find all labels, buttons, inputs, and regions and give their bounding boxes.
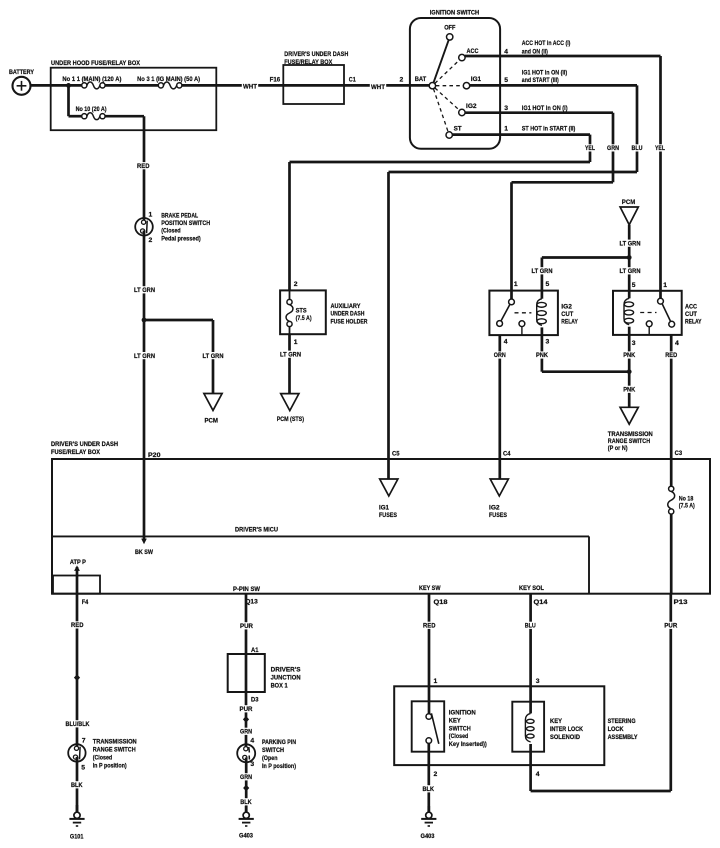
svg-text:PNK: PNK bbox=[536, 352, 548, 359]
svg-text:G403: G403 bbox=[421, 833, 435, 840]
fuse No 18 (7.5 A) bbox=[668, 459, 695, 594]
arrow to PCM (STS) bbox=[277, 394, 304, 424]
pin P20 bbox=[148, 452, 161, 459]
pin 3 bbox=[504, 105, 508, 112]
steering lock assembly box bbox=[394, 686, 638, 765]
svg-text:RED: RED bbox=[137, 163, 150, 170]
svg-text:RANGE SWITCH: RANGE SWITCH bbox=[608, 438, 650, 445]
note ST HOT bbox=[522, 125, 576, 132]
svg-text:5: 5 bbox=[546, 281, 550, 288]
svg-text:STEERING: STEERING bbox=[608, 718, 636, 725]
wire transmission range switch to ground (BLK) bbox=[70, 757, 84, 812]
svg-text:RED: RED bbox=[71, 622, 84, 629]
svg-text:LT GRN: LT GRN bbox=[620, 268, 641, 275]
driver's MICU box bbox=[52, 527, 589, 594]
pin 2 STS fuse bbox=[294, 281, 298, 288]
IG1 contact bbox=[463, 76, 481, 89]
pin 3 ACC relay bbox=[632, 340, 636, 347]
wire ACC pin4 to ACC cut relay pin1 (YEL) bbox=[465, 56, 666, 291]
battery positive terminal bbox=[9, 69, 34, 95]
svg-text:1: 1 bbox=[294, 339, 298, 346]
arrow to transmission range switch bbox=[608, 407, 653, 452]
svg-text:4: 4 bbox=[504, 339, 508, 346]
svg-text:F4: F4 bbox=[82, 599, 89, 606]
svg-text:Pedal pressed): Pedal pressed) bbox=[161, 236, 201, 243]
driver's junction box 1 bbox=[228, 654, 301, 692]
pin C4 bbox=[503, 451, 511, 458]
svg-text:IGNITION SWITCH: IGNITION SWITCH bbox=[430, 10, 480, 17]
svg-text:WHT: WHT bbox=[243, 83, 258, 90]
pin 5 IG2 relay bbox=[546, 281, 550, 288]
svg-text:FUSE HOLDER: FUSE HOLDER bbox=[331, 318, 368, 325]
svg-text:and ON (II): and ON (II) bbox=[522, 48, 548, 55]
wire IG1 pin5 to C5 (BLU) bbox=[389, 85, 644, 479]
svg-text:SWITCH: SWITCH bbox=[262, 747, 284, 754]
wire IG2 relay pin3 (PNK) bbox=[535, 335, 629, 372]
pin P13 bbox=[674, 599, 688, 606]
pin P-PIN SW bbox=[233, 586, 261, 593]
svg-text:C4: C4 bbox=[503, 451, 511, 458]
wire ACC relay pin4 to C3 (RED) bbox=[664, 335, 678, 459]
svg-text:IG1: IG1 bbox=[379, 505, 389, 512]
svg-text:RED: RED bbox=[423, 623, 436, 630]
IG2 contact bbox=[459, 103, 477, 116]
svg-text:3: 3 bbox=[632, 340, 636, 347]
fuse No 31 (IG MAIN) (50 A) bbox=[137, 76, 200, 89]
svg-text:No 18: No 18 bbox=[679, 495, 694, 502]
svg-text:IG2: IG2 bbox=[466, 103, 477, 110]
svg-text:LOCK: LOCK bbox=[608, 726, 624, 733]
svg-text:3: 3 bbox=[250, 761, 254, 768]
switch blade BAT-OFF bbox=[434, 40, 449, 83]
ST contact bbox=[446, 125, 462, 138]
relay ACC CUT RELAY bbox=[613, 291, 702, 335]
svg-text:IG1 HOT in ON (II): IG1 HOT in ON (II) bbox=[522, 69, 567, 76]
svg-text:2: 2 bbox=[434, 771, 438, 778]
svg-text:In P position): In P position) bbox=[93, 763, 127, 770]
parking pin switch S3 bbox=[237, 738, 296, 770]
svg-text:SWITCH: SWITCH bbox=[449, 726, 471, 733]
svg-text:UNDER DASH: UNDER DASH bbox=[331, 311, 365, 318]
svg-text:BK SW: BK SW bbox=[135, 549, 153, 556]
svg-text:A1: A1 bbox=[251, 647, 259, 654]
svg-text:BLK: BLK bbox=[423, 786, 435, 793]
svg-text:DRIVER'S UNDER DASH: DRIVER'S UNDER DASH bbox=[284, 51, 348, 58]
BAT contact bbox=[415, 76, 436, 89]
ground G403 (parking pin switch) bbox=[239, 806, 254, 840]
svg-text:INTER LOCK: INTER LOCK bbox=[550, 726, 583, 733]
ignition switch U1 bbox=[410, 10, 500, 149]
svg-text:No 10 (20 A): No 10 (20 A) bbox=[76, 106, 107, 113]
wire key switch pin2 to ground (BLK) bbox=[421, 752, 437, 813]
pin BK SW bbox=[135, 549, 153, 556]
dashed throw BAT-ST bbox=[433, 89, 448, 132]
inline connector (GRN-BLK) bbox=[243, 785, 249, 792]
svg-text:BAT: BAT bbox=[415, 76, 427, 83]
svg-text:UNDER HOOD FUSE/RELAY BOX: UNDER HOOD FUSE/RELAY BOX bbox=[51, 60, 140, 67]
wire bus to ignition switch bbox=[240, 83, 429, 91]
svg-text:C5: C5 bbox=[392, 451, 400, 458]
svg-text:(Closed: (Closed bbox=[93, 755, 113, 762]
svg-text:(7.5 A): (7.5 A) bbox=[296, 315, 312, 322]
dashed throw BAT-IG1 bbox=[436, 85, 463, 87]
svg-text:D3: D3 bbox=[251, 696, 259, 703]
pin Q18 bbox=[434, 599, 448, 606]
svg-text:PCM (STS): PCM (STS) bbox=[277, 416, 304, 423]
pin 4 IG2 relay bbox=[504, 339, 508, 346]
svg-text:GRN: GRN bbox=[240, 774, 252, 781]
svg-text:STS: STS bbox=[296, 307, 307, 314]
svg-text:7: 7 bbox=[82, 738, 86, 745]
pin 1 bbox=[504, 125, 508, 132]
wire main bus inside box bbox=[51, 84, 240, 87]
driver's under dash fuse/relay box (main) bbox=[51, 441, 710, 594]
pin 2 of ignition switch bbox=[400, 77, 404, 84]
relay IG2 CUT RELAY bbox=[489, 291, 578, 336]
svg-text:PARKING PIN: PARKING PIN bbox=[262, 739, 296, 746]
svg-text:SOLENOID: SOLENOID bbox=[550, 734, 580, 741]
svg-text:RELAY: RELAY bbox=[561, 319, 578, 326]
svg-text:No 3 1 (IG MAIN) (50 A): No 3 1 (IG MAIN) (50 A) bbox=[137, 76, 200, 83]
ACC contact bbox=[459, 48, 479, 61]
svg-text:(Closed: (Closed bbox=[161, 228, 181, 235]
svg-text:2: 2 bbox=[149, 237, 153, 244]
pin Q13 bbox=[245, 598, 258, 605]
svg-text:3: 3 bbox=[546, 339, 550, 346]
svg-text:Q14: Q14 bbox=[534, 599, 548, 606]
svg-text:FUSES: FUSES bbox=[489, 512, 507, 519]
pin 1 ACC relay bbox=[663, 282, 667, 289]
svg-text:RANGE SWITCH: RANGE SWITCH bbox=[93, 747, 136, 754]
svg-text:LT GRN: LT GRN bbox=[134, 287, 155, 294]
svg-text:DRIVER'S MICU: DRIVER'S MICU bbox=[235, 527, 278, 534]
svg-text:5: 5 bbox=[504, 77, 508, 84]
pin C1 bbox=[349, 77, 356, 84]
svg-text:TRANSMISSION: TRANSMISSION bbox=[93, 739, 137, 746]
svg-text:ATP P: ATP P bbox=[70, 559, 86, 566]
svg-text:1: 1 bbox=[434, 678, 438, 685]
wire battery to under-hood fuse box bbox=[31, 84, 52, 87]
svg-text:LT GRN: LT GRN bbox=[620, 240, 641, 247]
under-hood fuse/relay box bbox=[51, 60, 217, 130]
note IG2 HOT bbox=[522, 105, 568, 112]
svg-text:GRN: GRN bbox=[240, 729, 252, 736]
svg-text:P13: P13 bbox=[674, 599, 688, 606]
svg-text:BLU: BLU bbox=[525, 623, 536, 630]
svg-text:OFF: OFF bbox=[444, 25, 455, 32]
svg-text:PCM: PCM bbox=[622, 199, 636, 206]
svg-text:(P or N): (P or N) bbox=[608, 445, 628, 452]
pin Q14 bbox=[534, 599, 548, 606]
svg-text:Q18: Q18 bbox=[434, 599, 448, 606]
pin C3 bbox=[675, 450, 683, 457]
svg-text:Key Inserted)): Key Inserted)) bbox=[449, 741, 487, 748]
pin 5 ACC relay bbox=[632, 282, 636, 289]
wire fuse No 10 to down column bbox=[105, 116, 144, 223]
svg-text:LT GRN: LT GRN bbox=[134, 353, 155, 360]
note ACC HOT bbox=[522, 40, 571, 55]
wire STS fuse to PCM arrow (LT GRN) bbox=[279, 334, 302, 393]
wire junction down to fuse No 10 bbox=[69, 85, 82, 116]
svg-text:4: 4 bbox=[504, 48, 508, 55]
svg-text:1: 1 bbox=[514, 281, 518, 288]
OFF contact bbox=[444, 25, 455, 41]
svg-text:5: 5 bbox=[632, 282, 636, 289]
wire junction box to parking pin switch (PUR/GRN) bbox=[238, 692, 258, 750]
svg-text:(Closed: (Closed bbox=[449, 733, 469, 740]
svg-text:PUR: PUR bbox=[240, 706, 253, 713]
wire Q18 to ignition key switch (RED) bbox=[422, 594, 438, 702]
svg-text:LT GRN: LT GRN bbox=[280, 351, 301, 358]
svg-text:PCM: PCM bbox=[205, 417, 219, 424]
svg-text:ACC: ACC bbox=[685, 304, 697, 311]
arrow to PCM bbox=[204, 394, 222, 425]
svg-text:RELAY: RELAY bbox=[685, 319, 702, 326]
svg-text:ACC HOT in ACC (I): ACC HOT in ACC (I) bbox=[522, 40, 571, 47]
svg-text:FUSE/RELAY BOX: FUSE/RELAY BOX bbox=[51, 449, 100, 456]
wire F4 to transmission range switch (RED / BLU-BLK) bbox=[64, 594, 90, 750]
svg-text:C1: C1 bbox=[349, 77, 356, 84]
svg-text:JUNCTION: JUNCTION bbox=[271, 674, 301, 681]
junction PNK bbox=[627, 369, 632, 374]
svg-text:WHT: WHT bbox=[371, 84, 386, 91]
note IG1 HOT bbox=[522, 69, 567, 84]
pin F16 bbox=[270, 77, 281, 84]
pin KEY SW bbox=[419, 585, 441, 592]
svg-text:G403: G403 bbox=[239, 833, 253, 840]
wire branch to PCM arrow (LT GRN) bbox=[144, 320, 225, 394]
wire brake switch down (LT GRN) bbox=[133, 231, 156, 321]
wire IG2 relay pin4 to C4 (ORN) bbox=[493, 335, 507, 479]
svg-text:1: 1 bbox=[149, 211, 153, 218]
svg-text:ORN: ORN bbox=[494, 352, 506, 359]
pin KEY SOL bbox=[519, 585, 544, 592]
dashed throw BAT-IG2 bbox=[435, 88, 459, 110]
pin 4 ACC relay bbox=[675, 340, 679, 347]
wire solenoid pin4 down bbox=[531, 752, 540, 791]
ground G403 (ignition key switch) bbox=[421, 806, 437, 840]
svg-text:No 1 1 (MAIN) (120 A): No 1 1 (MAIN) (120 A) bbox=[62, 76, 121, 83]
inline connector (left column) bbox=[74, 674, 80, 681]
svg-text:TRANSMISSION: TRANSMISSION bbox=[608, 431, 653, 438]
svg-text:4: 4 bbox=[250, 738, 254, 745]
svg-text:4: 4 bbox=[536, 771, 540, 778]
svg-text:2: 2 bbox=[294, 281, 298, 288]
svg-text:LT GRN: LT GRN bbox=[532, 268, 553, 275]
svg-text:and START (III): and START (III) bbox=[522, 77, 559, 84]
label LT GRN on ACC relay pin5 wire bbox=[618, 267, 641, 275]
svg-text:PNK: PNK bbox=[623, 387, 635, 394]
wire Q14 to key interlock solenoid (BLU) bbox=[524, 594, 540, 702]
svg-text:(Open: (Open bbox=[262, 755, 278, 762]
ignition key switch S4 bbox=[412, 701, 487, 751]
svg-text:POSITION SWITCH: POSITION SWITCH bbox=[161, 220, 210, 227]
svg-text:RED: RED bbox=[665, 352, 677, 359]
wire ACC relay pin3 (PNK) bbox=[622, 335, 636, 407]
svg-text:3: 3 bbox=[504, 105, 508, 112]
wire to pin P20 / BK SW (LT GRN) bbox=[133, 320, 156, 544]
svg-text:PNK: PNK bbox=[623, 352, 635, 359]
driver's under dash fuse/relay box (pass-through) bbox=[283, 51, 348, 104]
svg-text:P-PIN SW: P-PIN SW bbox=[233, 586, 261, 593]
svg-text:BRAKE PEDAL: BRAKE PEDAL bbox=[161, 212, 198, 219]
key interlock solenoid L1 bbox=[512, 702, 583, 752]
svg-text:BLK: BLK bbox=[71, 782, 83, 789]
svg-text:DRIVER'S: DRIVER'S bbox=[271, 666, 301, 673]
pin ATP P with sub-box bbox=[53, 559, 100, 594]
junction LT GRN split bbox=[627, 255, 632, 260]
pin C5 bbox=[392, 451, 400, 458]
wire IG2 pin3 to IG2 cut relay pin1 (GRN) bbox=[465, 113, 620, 291]
inline connector (PUR-GRN) bbox=[243, 716, 249, 723]
wire parking pin switch to ground (GRN/BLK) bbox=[239, 758, 253, 813]
fuse STS (7.5 A) auxiliary under dash fuse holder bbox=[280, 290, 367, 334]
svg-text:DRIVER'S UNDER DASH: DRIVER'S UNDER DASH bbox=[51, 441, 118, 448]
svg-text:IG1 HOT in ON (I): IG1 HOT in ON (I) bbox=[522, 105, 568, 112]
svg-text:BATTERY: BATTERY bbox=[9, 69, 34, 76]
ground G101 bbox=[69, 805, 84, 840]
svg-text:FUSES: FUSES bbox=[379, 512, 397, 519]
svg-text:ST: ST bbox=[454, 125, 463, 132]
svg-text:IGNITION: IGNITION bbox=[449, 710, 476, 717]
svg-text:C3: C3 bbox=[675, 450, 683, 457]
arrow to IG2 fuses bbox=[489, 479, 508, 519]
svg-text:BLK: BLK bbox=[240, 799, 252, 806]
arrow from PCM (top right) bbox=[618, 199, 641, 290]
transmission range switch S2 bbox=[68, 738, 137, 772]
svg-text:In P position): In P position) bbox=[262, 763, 296, 770]
svg-text:FUSE/RELAY BOX: FUSE/RELAY BOX bbox=[284, 59, 332, 66]
svg-text:CUT: CUT bbox=[685, 311, 698, 318]
wire Q13 to driver's junction box (PUR) bbox=[239, 594, 259, 654]
svg-text:KEY: KEY bbox=[550, 718, 562, 725]
arrow to IG1 fuses bbox=[379, 479, 398, 519]
wire to IG2 relay pin5 (LT GRN) bbox=[530, 258, 629, 291]
fuse No 11 (MAIN) (120 A) bbox=[62, 76, 121, 89]
junction LT GRN (left column) bbox=[142, 318, 147, 323]
svg-text:P20: P20 bbox=[148, 452, 161, 459]
svg-text:1: 1 bbox=[504, 125, 508, 132]
svg-text:YEL: YEL bbox=[585, 145, 595, 152]
svg-text:BLU: BLU bbox=[632, 145, 643, 152]
svg-text:(7.5 A): (7.5 A) bbox=[679, 502, 695, 509]
svg-text:4: 4 bbox=[675, 340, 679, 347]
svg-text:3: 3 bbox=[536, 678, 540, 685]
dashed throw BAT-ACC bbox=[435, 60, 460, 83]
svg-text:LT GRN: LT GRN bbox=[203, 353, 224, 360]
svg-text:KEY SOL: KEY SOL bbox=[519, 585, 544, 592]
brake pedal position switch S1 bbox=[135, 211, 210, 244]
svg-text:IG2: IG2 bbox=[561, 304, 572, 311]
svg-text:F16: F16 bbox=[270, 77, 281, 84]
svg-text:ST HOT in START (II): ST HOT in START (II) bbox=[522, 125, 576, 132]
svg-text:ASSEMBLY: ASSEMBLY bbox=[608, 734, 638, 741]
svg-text:PUR: PUR bbox=[664, 623, 677, 630]
svg-text:IG2: IG2 bbox=[489, 505, 500, 512]
svg-text:PUR: PUR bbox=[240, 623, 253, 630]
svg-text:YEL: YEL bbox=[655, 145, 665, 152]
wire label RED (left column) bbox=[136, 162, 151, 170]
svg-text:BLU/BLK: BLU/BLK bbox=[66, 721, 90, 728]
pin 4 bbox=[504, 48, 508, 55]
wire P13 to solenoid pin4 (PUR) bbox=[531, 594, 679, 791]
svg-text:ACC: ACC bbox=[467, 48, 479, 55]
svg-text:KEY: KEY bbox=[449, 718, 461, 725]
pin F4 bbox=[82, 599, 89, 606]
svg-text:CUT: CUT bbox=[561, 311, 574, 318]
svg-text:IG1: IG1 bbox=[471, 76, 481, 83]
svg-text:2: 2 bbox=[400, 77, 404, 84]
svg-text:G101: G101 bbox=[70, 833, 84, 840]
svg-text:5: 5 bbox=[81, 765, 85, 772]
pin 1 IG2 relay bbox=[514, 281, 518, 288]
pin 5 bbox=[504, 77, 508, 84]
svg-text:KEY SW: KEY SW bbox=[419, 585, 441, 592]
svg-text:1: 1 bbox=[663, 282, 667, 289]
junction at main bus bbox=[66, 83, 71, 88]
svg-text:BOX 1: BOX 1 bbox=[271, 682, 288, 689]
svg-text:GRN: GRN bbox=[607, 145, 619, 152]
fuse No 10 (20 A) bbox=[76, 106, 107, 119]
wire ST pin1 to STS fuse (YEL) bbox=[290, 135, 597, 291]
pin 3 IG2 relay bbox=[546, 339, 550, 346]
svg-text:AUXILIARY: AUXILIARY bbox=[331, 303, 361, 310]
